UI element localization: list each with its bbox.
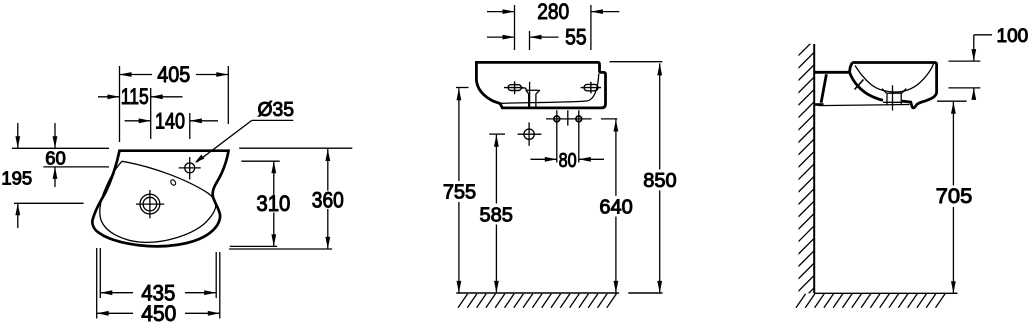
svg-text:55: 55 bbox=[565, 24, 587, 49]
svg-text:195: 195 bbox=[1, 168, 32, 189]
svg-text:585: 585 bbox=[480, 204, 513, 226]
svg-text:755: 755 bbox=[443, 181, 476, 203]
svg-text:850: 850 bbox=[643, 170, 676, 192]
svg-text:280: 280 bbox=[537, 0, 569, 24]
svg-text:360: 360 bbox=[312, 187, 344, 212]
svg-text:Ø35: Ø35 bbox=[258, 98, 295, 121]
svg-text:100: 100 bbox=[997, 26, 1028, 47]
svg-text:705: 705 bbox=[936, 185, 973, 208]
svg-text:80: 80 bbox=[559, 150, 577, 172]
svg-text:310: 310 bbox=[256, 191, 290, 216]
svg-text:60: 60 bbox=[45, 148, 66, 169]
svg-text:405: 405 bbox=[157, 62, 190, 87]
svg-text:640: 640 bbox=[599, 197, 632, 219]
svg-text:140: 140 bbox=[155, 109, 185, 134]
svg-text:115: 115 bbox=[121, 84, 149, 109]
svg-text:450: 450 bbox=[141, 301, 176, 326]
